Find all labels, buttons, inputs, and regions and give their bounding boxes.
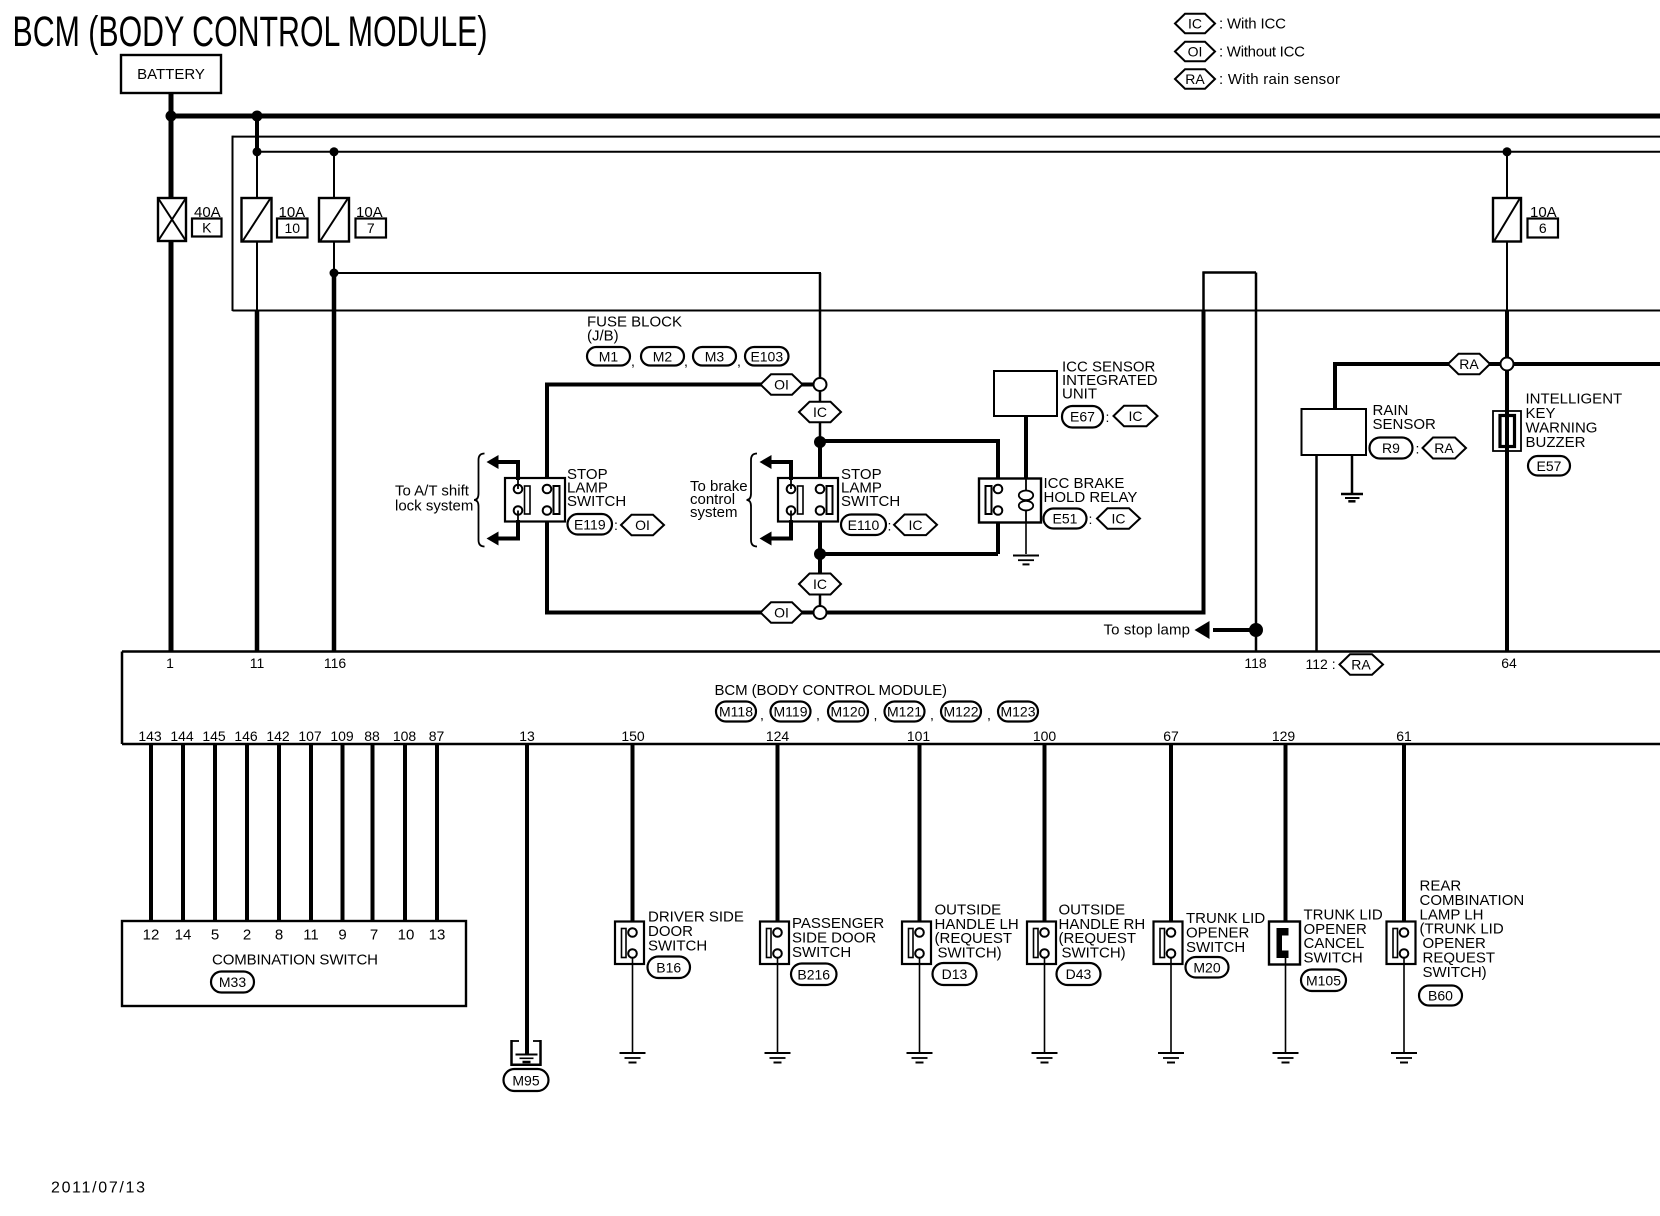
wire fuse10 out to BCM pin 11 — [256, 242, 258, 311]
legend hexagon IC — [1175, 14, 1215, 33]
connector oval D43 — [1057, 963, 1101, 985]
stop lamp switch E110 box — [778, 478, 838, 522]
svg-text:129: 129 — [1272, 728, 1296, 744]
wire E67 to relay coil — [1024, 416, 1028, 479]
wire trunk lid opener switch M20 to ground — [1170, 958, 1172, 1052]
svg-text:M119: M119 — [774, 704, 808, 720]
value box K — [192, 219, 222, 237]
wire BCM to passenger side door switch B216 — [776, 744, 780, 929]
arrow to brake control top — [789, 462, 793, 480]
svg-text::: : — [1089, 511, 1093, 527]
wire fuse6 feed x=1507 — [1506, 152, 1508, 198]
ICC sensor integrated unit E67 box — [994, 371, 1057, 416]
connector oval M119 — [771, 702, 811, 722]
svg-text:150: 150 — [621, 728, 645, 744]
connector oval B16 — [648, 957, 691, 979]
hexagon IC lower — [799, 574, 841, 595]
svg-text:M123: M123 — [1000, 704, 1035, 720]
node open circle upper x=820 — [814, 378, 827, 391]
svg-text:E57: E57 — [1537, 458, 1562, 474]
svg-text:1: 1 — [166, 655, 174, 671]
ground (rear combination lamp LH B60) — [1391, 1052, 1417, 1054]
connector oval E51 — [1044, 509, 1087, 529]
E119 contact bar white — [525, 486, 531, 514]
wire staple thin x1203.5 up — [1202, 272, 1205, 311]
wire rain sensor right pin to ground — [1351, 454, 1354, 493]
svg-text:M118: M118 — [719, 704, 753, 720]
svg-text:B60: B60 — [1428, 988, 1453, 1004]
svg-text:SWITCH: SWITCH — [841, 493, 900, 510]
svg-text:11: 11 — [250, 655, 265, 671]
wire fuse block left edge x=232.5 — [232, 136, 234, 311]
switch M105 cancel box — [1269, 922, 1300, 965]
connector oval M20 — [1186, 957, 1229, 978]
wire branch y=273 from x334 to x820 — [334, 272, 821, 274]
wire RA path right of circle — [1513, 362, 1660, 366]
wire battery drop x=171 to BCM pin 1 — [169, 93, 174, 651]
connector oval M105 — [1301, 970, 1346, 992]
svg-text:109: 109 — [330, 728, 354, 744]
svg-text:144: 144 — [170, 728, 194, 744]
svg-text::: : — [1106, 409, 1110, 425]
svg-text:,: , — [684, 353, 688, 369]
svg-text:OI: OI — [1188, 44, 1203, 60]
M105 contact bracket — [1277, 928, 1289, 958]
svg-text:SWITCH): SWITCH) — [938, 944, 1002, 961]
svg-text:SWITCH: SWITCH — [567, 493, 626, 510]
wire BCM to rear combination lamp LH B60 — [1402, 744, 1406, 929]
legend hexagon RA — [1175, 69, 1215, 88]
connector oval M2 — [641, 347, 684, 366]
svg-text:E67: E67 — [1070, 409, 1095, 425]
intelligent key warning buzzer E57 — [1493, 411, 1521, 451]
svg-text:lock system: lock system — [395, 498, 473, 515]
svg-text:E119: E119 — [574, 517, 606, 533]
E119 pin circles — [514, 485, 523, 494]
value box 10 — [277, 219, 308, 238]
node junction fuse7 out / branch y=273 — [330, 269, 339, 278]
svg-text:system: system — [690, 504, 738, 521]
E110 contact bar white — [798, 486, 804, 514]
arrow to A/T shift lock top — [516, 462, 520, 480]
connector oval M122 — [941, 702, 981, 722]
svg-text:,: , — [874, 707, 878, 723]
svg-text:IC: IC — [1112, 511, 1126, 527]
combination switch box — [122, 921, 466, 1006]
wire x=820 junction to E110 — [818, 442, 822, 486]
svg-text:D43: D43 — [1066, 966, 1092, 982]
svg-text:IC: IC — [1188, 16, 1202, 32]
svg-text:87: 87 — [429, 728, 445, 744]
wire x=820 junction to lower circle — [818, 554, 822, 584]
connector oval D13 — [933, 963, 977, 985]
wire staple top y=272.5 — [1203, 271, 1257, 274]
BCM (body control module) box — [122, 650, 1660, 653]
svg-text:SWITCH: SWITCH — [648, 938, 707, 955]
connector oval M118 — [716, 702, 756, 722]
svg-text:118: 118 — [1244, 655, 1267, 671]
relay contact bar dark — [986, 486, 992, 514]
svg-text::: : — [614, 517, 618, 533]
svg-text:BUZZER: BUZZER — [1526, 434, 1586, 451]
svg-text:M121: M121 — [887, 704, 922, 720]
wire passenger side door switch B216 to ground — [777, 958, 779, 1052]
arrow to brake control bottom — [789, 520, 793, 539]
value box 7 — [356, 219, 387, 238]
svg-text:6: 6 — [1539, 220, 1547, 236]
svg-text:,: , — [737, 353, 741, 369]
wire fuse block bottom line y=310.5 — [233, 310, 1660, 312]
connector oval B60 — [1419, 986, 1462, 1006]
wire BCM to trunk lid opener switch M20 — [1169, 744, 1173, 929]
svg-text:E103: E103 — [750, 349, 783, 365]
node open circle lower x=820 — [814, 606, 827, 619]
ground (M105) — [1273, 1052, 1299, 1054]
E119 left pin stubs — [517, 478, 519, 489]
wire relay branch top y=441 — [820, 439, 996, 443]
svg-text:146: 146 — [234, 728, 258, 744]
value box 6 — [1528, 219, 1559, 238]
node junction to stop lamp x1256 y630 — [1249, 623, 1263, 637]
wire fuse7 out to BCM pin 116 — [332, 273, 337, 651]
hexagon OI lower — [761, 602, 803, 623]
svg-text:88: 88 — [364, 728, 380, 744]
wire E119 feed x=547 upper — [545, 383, 549, 487]
svg-text:9: 9 — [338, 927, 346, 944]
wire BCM to outside handle LH D13 — [918, 744, 922, 929]
hexagon OI (E119) — [621, 515, 664, 536]
wire E110 bottom to junction — [818, 514, 822, 554]
wire outside handle LH D13 to ground — [919, 958, 921, 1052]
svg-text:M20: M20 — [1193, 959, 1220, 975]
svg-text:M33: M33 — [219, 974, 246, 990]
svg-text:D13: D13 — [942, 966, 968, 982]
svg-text:M122: M122 — [943, 704, 978, 720]
wire x=820 down from y273 to OI circle — [819, 273, 822, 379]
node junction bus/fuse10 feed — [252, 111, 263, 122]
svg-text:OI: OI — [774, 605, 789, 621]
connector oval M33 — [211, 972, 254, 993]
svg-text:BCM (BODY CONTROL MODULE): BCM (BODY CONTROL MODULE) — [715, 682, 948, 699]
svg-text:RA: RA — [1185, 71, 1205, 87]
wire to stop lamp arrow — [1213, 628, 1256, 632]
svg-text:IC: IC — [909, 517, 923, 533]
svg-text:2011/07/13: 2011/07/13 — [51, 1180, 145, 1197]
ICC brake hold relay E51 box — [979, 479, 1041, 523]
wire BCM to outside handle RH D43 — [1043, 744, 1047, 929]
wire staple x=1256 down to BCM pin 118 — [1255, 273, 1258, 652]
connector oval M120 — [828, 702, 868, 722]
connector oval M123 — [998, 702, 1038, 722]
svg-text:,: , — [631, 353, 635, 369]
svg-text:13: 13 — [519, 728, 535, 744]
hexagon RA (pin 112) — [1340, 654, 1384, 675]
svg-text:BATTERY: BATTERY — [137, 66, 205, 83]
svg-text:8: 8 — [275, 927, 283, 944]
svg-text:M95: M95 — [512, 1073, 539, 1089]
svg-text:10: 10 — [398, 927, 415, 944]
wire BCM to driver side door switch B16 — [631, 744, 635, 929]
svg-text:RA: RA — [1351, 657, 1371, 673]
node open circle RA x=1507 — [1501, 358, 1514, 371]
svg-text:UNIT: UNIT — [1062, 386, 1097, 403]
svg-text:IC: IC — [1129, 408, 1143, 424]
switch trunk lid opener switch M20 box — [1154, 922, 1183, 965]
battery BATTERY — [121, 55, 221, 93]
arrow to A/T shift lock bottom — [516, 520, 520, 539]
svg-text:R9: R9 — [1382, 440, 1400, 456]
wire rain sensor feed x=1335 — [1333, 362, 1337, 409]
svg-text:12: 12 — [143, 927, 160, 944]
svg-text:SWITCH: SWITCH — [1304, 949, 1363, 966]
svg-text:HOLD RELAY: HOLD RELAY — [1044, 489, 1138, 506]
wire outside handle RH D43 to ground — [1044, 958, 1046, 1052]
svg-text:14: 14 — [175, 927, 192, 944]
node junction battery/bus — [166, 111, 177, 122]
svg-text:7: 7 — [370, 927, 378, 944]
wire fuse7 out — [333, 242, 335, 274]
ground (trunk lid opener switch M20) — [1158, 1052, 1184, 1054]
wire thick riser x=1203.5 — [1202, 311, 1206, 615]
hexagon OI upper — [761, 374, 803, 395]
legend hexagon OI — [1175, 42, 1215, 61]
svg-text:: With ICC: : With ICC — [1219, 16, 1286, 33]
connector oval M121 — [885, 702, 925, 722]
svg-text:SWITCH: SWITCH — [1186, 939, 1245, 956]
ground (outside handle LH D13) — [907, 1052, 933, 1054]
svg-text:143: 143 — [138, 728, 162, 744]
wire E119 bottom x=547 — [545, 514, 549, 615]
wire RA path y=364 — [1335, 362, 1501, 366]
connector oval M95 — [504, 1069, 549, 1091]
svg-text:64: 64 — [1501, 655, 1517, 671]
svg-text:SWITCH: SWITCH — [792, 944, 851, 961]
svg-text:E110: E110 — [848, 517, 880, 533]
svg-text:108: 108 — [393, 728, 417, 744]
wire x=820 circle to junction — [819, 391, 822, 442]
svg-text:,: , — [987, 707, 991, 723]
E119 contact bar dark — [554, 486, 560, 514]
svg-text:SENSOR: SENSOR — [1373, 416, 1437, 433]
svg-text:10: 10 — [285, 220, 301, 236]
svg-text:SWITCH): SWITCH) — [1062, 944, 1126, 961]
svg-text:7: 7 — [367, 220, 375, 236]
connector oval R9 — [1370, 438, 1413, 459]
node junction y152/x257 — [253, 147, 262, 156]
wire M105 to ground — [1285, 951, 1287, 1053]
svg-text:101: 101 — [907, 728, 931, 744]
switch passenger side door switch B216 box — [760, 922, 789, 965]
brace for brake control — [747, 454, 758, 547]
svg-text:IC: IC — [813, 404, 827, 420]
wire main battery bus y=116 — [171, 114, 1660, 119]
wire fuse block top line y=136.6 — [233, 136, 1660, 138]
fuse 10A #7 — [319, 198, 349, 242]
svg-text:116: 116 — [324, 655, 347, 671]
switch outside handle RH D43 box — [1027, 922, 1056, 965]
wire OI upper path y=384.5 — [547, 383, 814, 387]
relay coil — [1025, 479, 1027, 492]
brace for A/T shift lock — [474, 454, 485, 547]
wires BCM pins to combination switch — [149, 744, 153, 921]
svg-text:: With rain sensor: : With rain sensor — [1219, 71, 1340, 88]
hexagon IC (E67) — [1114, 406, 1158, 427]
svg-text:124: 124 — [766, 728, 790, 744]
wire fuse7 feed x=334 — [333, 152, 335, 198]
hexagon IC (E110) — [894, 515, 937, 536]
svg-text:OI: OI — [774, 377, 789, 393]
wire fuse6 out to RA circle — [1506, 242, 1508, 311]
wire OI lower path right to x1204 — [826, 611, 1205, 615]
ground (passenger side door switch B216) — [765, 1052, 791, 1054]
svg-text:SWITCH): SWITCH) — [1423, 964, 1487, 981]
connector oval M3 — [693, 347, 736, 366]
svg-text:107: 107 — [298, 728, 322, 744]
svg-text:(J/B): (J/B) — [587, 328, 619, 345]
svg-text:RA: RA — [1434, 440, 1454, 456]
svg-text:B16: B16 — [656, 959, 681, 975]
hexagon IC (E51) — [1097, 508, 1140, 529]
node junction y152/x1507 — [1503, 147, 1512, 156]
svg-text:M120: M120 — [830, 704, 865, 720]
connector oval B216 — [791, 964, 837, 986]
connector oval E103 — [745, 347, 789, 366]
fuse 10A #6 — [1493, 198, 1521, 242]
svg-text:B216: B216 — [797, 966, 830, 982]
svg-text:M2: M2 — [653, 349, 673, 365]
connector oval E67 — [1062, 406, 1103, 428]
svg-text:145: 145 — [202, 728, 226, 744]
node junction x820 y554 — [814, 548, 826, 560]
svg-text:100: 100 — [1033, 728, 1057, 744]
wire rear combination lamp LH B60 to ground — [1403, 958, 1405, 1052]
ground (driver side door switch B16) — [620, 1052, 646, 1054]
fuse 10A #10 — [242, 198, 272, 242]
svg-text:11: 11 — [303, 927, 319, 944]
wire relay branch bottom y=554 — [997, 511, 999, 523]
svg-text:M1: M1 — [599, 349, 619, 365]
svg-text:To stop lamp: To stop lamp — [1104, 622, 1191, 639]
wire fuse10 feed x=257 — [255, 116, 259, 152]
connector oval E119 — [568, 514, 613, 535]
fusible link 40A K (box with X) — [158, 198, 186, 241]
svg-text:142: 142 — [266, 728, 290, 744]
svg-text:13: 13 — [429, 927, 446, 944]
svg-text:E51: E51 — [1053, 511, 1078, 527]
svg-text:K: K — [202, 220, 212, 236]
node junction x820 y442 — [814, 436, 826, 448]
ground (rain sensor) — [1341, 493, 1363, 496]
connector oval M1 — [587, 347, 630, 366]
svg-text:61: 61 — [1396, 728, 1412, 744]
svg-text:: Without ICC: : Without ICC — [1219, 44, 1305, 61]
svg-text:,: , — [760, 707, 764, 723]
ground (outside handle RH D43) — [1032, 1052, 1058, 1054]
svg-text:BCM (BODY CONTROL MODULE): BCM (BODY CONTROL MODULE) — [13, 8, 488, 56]
stop lamp switch E119 box — [505, 478, 565, 522]
switch rear combination lamp LH B60 box — [1387, 922, 1416, 965]
ground box M95 — [510, 1040, 513, 1066]
svg-text:M3: M3 — [705, 349, 725, 365]
svg-text:,: , — [816, 707, 820, 723]
E110 left pin stubs — [790, 478, 792, 489]
svg-text:,: , — [930, 707, 934, 723]
relay pin circles — [994, 485, 1003, 494]
svg-text:M105: M105 — [1306, 972, 1341, 988]
wire OI lower path y=612.5 left — [547, 611, 814, 615]
node junction y152/x334 — [330, 147, 339, 156]
svg-text:IC: IC — [813, 576, 827, 592]
E110 pin circles — [787, 485, 796, 494]
svg-text:67: 67 — [1163, 728, 1179, 744]
svg-text:112 :: 112 : — [1306, 656, 1336, 672]
svg-text:COMBINATION SWITCH: COMBINATION SWITCH — [212, 952, 378, 969]
hexagon RA (R9) — [1423, 438, 1467, 459]
connector oval E110 — [841, 515, 886, 536]
svg-text::: : — [888, 518, 892, 534]
svg-text::: : — [1416, 441, 1420, 457]
relay coil ground wire — [1025, 523, 1027, 555]
switch driver side door switch B16 box — [615, 922, 644, 965]
svg-text:5: 5 — [211, 927, 219, 944]
hexagon RA (path) — [1448, 354, 1490, 375]
wire rain sensor left pin to BCM pin 112 — [1315, 454, 1318, 651]
wire BCM to trunk lid opener cancel switch M105 — [1284, 744, 1288, 935]
switch outside handle LH D13 box — [902, 922, 931, 965]
wire feeder line y=151.8 — [257, 151, 1660, 153]
svg-text:2: 2 — [243, 927, 251, 944]
E110 contact bar dark — [827, 486, 833, 514]
svg-text:RA: RA — [1459, 356, 1479, 372]
rain sensor box — [1302, 409, 1367, 455]
hexagon IC upper — [799, 402, 841, 423]
connector oval E57 — [1528, 456, 1570, 476]
wire driver side door switch B16 to ground — [632, 958, 634, 1052]
ground (relay) — [1013, 555, 1039, 557]
svg-text:OI: OI — [635, 517, 650, 533]
wire BCM pin 13 to ground M95 — [525, 744, 529, 1054]
